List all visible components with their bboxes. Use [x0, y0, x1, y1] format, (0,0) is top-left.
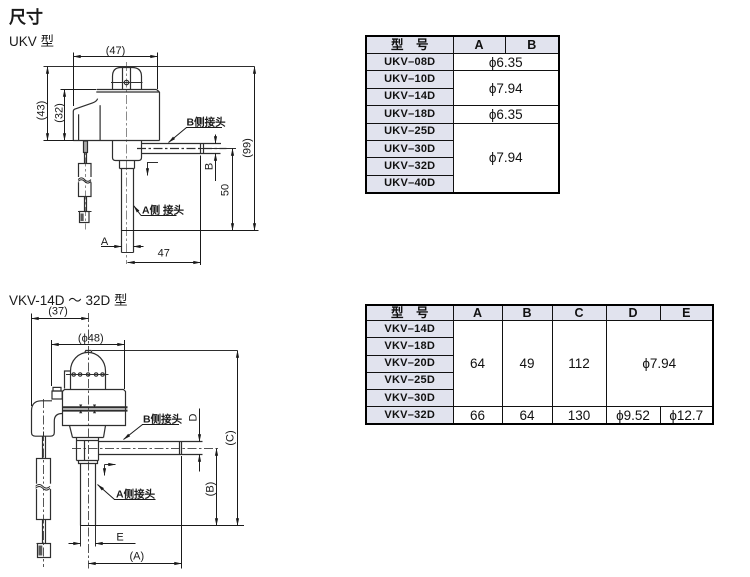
- svg-text:B侧接头: B侧接头: [143, 412, 183, 425]
- svg-text:50: 50: [220, 184, 232, 196]
- svg-text:(43): (43): [36, 101, 48, 121]
- svg-text:A侧接头: A侧接头: [116, 487, 156, 500]
- svg-text:(99): (99): [242, 138, 254, 158]
- svg-text:A: A: [101, 236, 109, 248]
- svg-text:D: D: [188, 413, 200, 421]
- svg-text:(B): (B): [205, 482, 217, 497]
- svg-text:B侧接头: B侧接头: [187, 115, 227, 128]
- svg-text:(C): (C): [225, 430, 237, 445]
- svg-text:B: B: [204, 163, 216, 170]
- svg-text:(ϕ48): (ϕ48): [78, 333, 104, 345]
- svg-text:(47): (47): [106, 45, 126, 57]
- svg-text:(37): (37): [48, 306, 68, 318]
- svg-text:(A): (A): [129, 551, 144, 563]
- svg-text:E: E: [116, 532, 123, 544]
- svg-text:47: 47: [158, 248, 170, 260]
- svg-text:A侧 接头: A侧 接头: [142, 204, 184, 217]
- svg-text:(32): (32): [54, 103, 66, 123]
